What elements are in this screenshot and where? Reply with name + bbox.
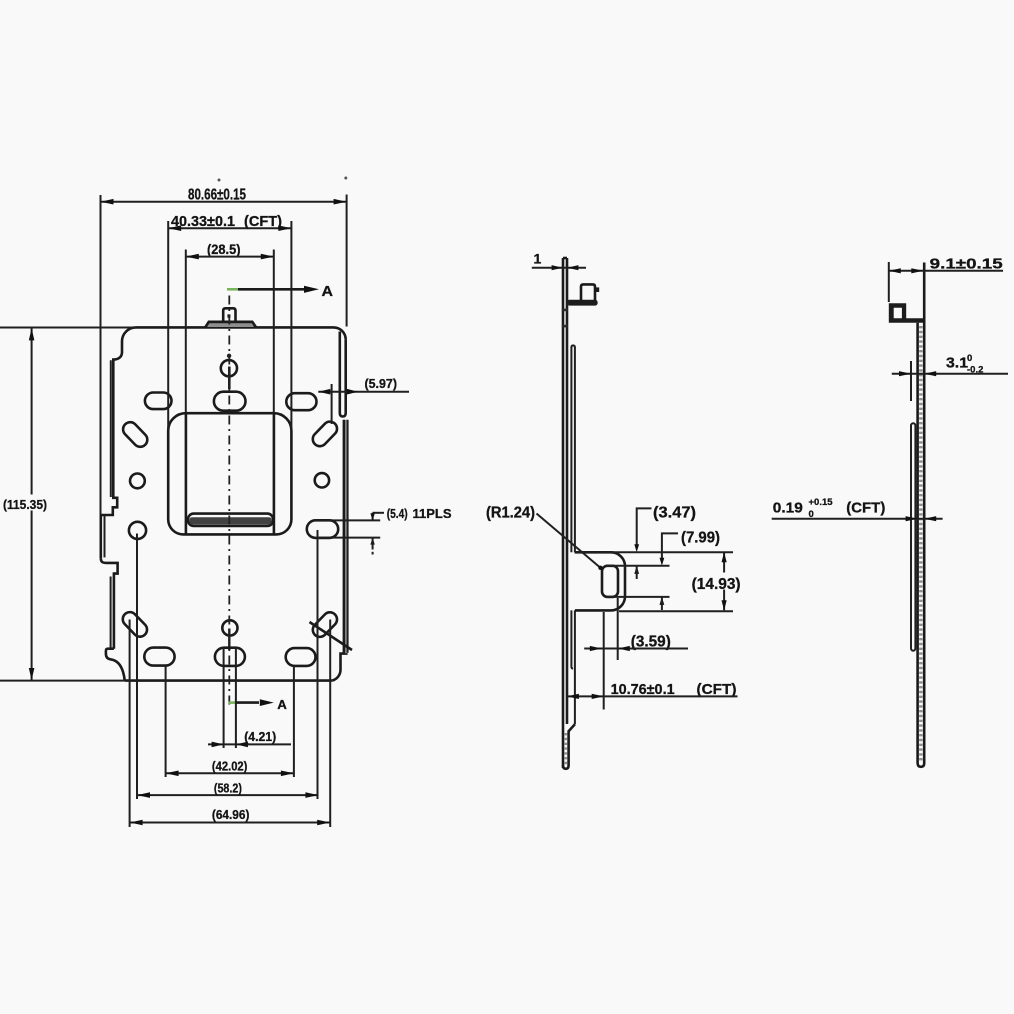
svg-text:0: 0: [967, 353, 972, 364]
middle view: main sheet profile lines: [562, 258, 565, 768]
front view: tab notch dot: [227, 314, 230, 317]
front view: small circle left: [130, 474, 145, 489]
front view: right edge gray double band: [344, 420, 347, 653]
front view: upper angled slot right: [310, 419, 340, 449]
svg-text:A: A: [322, 284, 334, 300]
front view: bottom-left corner: [106, 649, 125, 681]
svg-text:(CFT): (CFT): [846, 500, 885, 517]
front view: left side stepped contour upper: [101, 327, 136, 515]
middle view: small edge tick marks: [562, 309, 568, 312]
front view: right edge top with slit U: [344, 340, 347, 413]
front view: bottom row slot middle: [215, 648, 245, 666]
front view: bottom bar of window with dark fill: [188, 514, 273, 526]
front view: bottom row slot right: [286, 648, 316, 666]
front view: top-right corner arc: [334, 327, 346, 339]
front view: lower angled slot left: [120, 609, 150, 639]
svg-text:(42.02): (42.02): [212, 758, 248, 773]
mid extension lines for bump: [575, 551, 734, 553]
front view: upper angled slot left: [120, 419, 150, 449]
right view: hook finger (dark): [889, 303, 924, 323]
front view: middle slot right: [307, 520, 338, 538]
svg-text:(14.93): (14.93): [692, 576, 741, 593]
front view: lower angled slot right: [310, 609, 340, 639]
front view: left outer edge line (also 80.66 left extension): [100, 195, 102, 515]
front view: bottom edge: [125, 679, 333, 682]
front view: left side tab step: [101, 558, 118, 649]
dim (58.2): [136, 534, 138, 800]
svg-text:(58.2): (58.2): [214, 781, 242, 796]
front view: window inner channel lines: [185, 413, 188, 534]
svg-text:(4.21): (4.21): [244, 729, 276, 744]
middle view: top hook square tab: [581, 284, 595, 300]
mid dim (14.93): [723, 552, 725, 610]
svg-text:(28.5): (28.5): [207, 241, 241, 257]
svg-text:A: A: [277, 697, 287, 712]
right view: offset back layer: [911, 423, 915, 650]
svg-text:(5.4): (5.4): [387, 507, 408, 521]
svg-text:(64.96): (64.96): [212, 807, 250, 822]
front view: top row slot middle: [214, 392, 246, 411]
svg-text:(5.97): (5.97): [365, 376, 398, 391]
svg-text:11PLS: 11PLS: [413, 507, 452, 521]
middle view: clip bump outer profile: [575, 552, 625, 610]
front view: left side contour mid (double line): [100, 515, 103, 558]
front view: central embossed window (rounded rect): [168, 413, 291, 534]
right view: sheet edge (dotted band): [916, 323, 919, 763]
section arrow A bottom with green mark: [229, 701, 237, 704]
section arrow A top with green mark: [227, 288, 238, 291]
svg-text:1: 1: [534, 251, 542, 267]
front view: bottom small hole: [222, 620, 237, 635]
dim (115.35) left: [0, 327, 136, 329]
middle view: back-plate offset lines: [571, 345, 575, 347]
svg-text:(R1.24): (R1.24): [486, 505, 535, 522]
middle view: hook nub: [595, 287, 599, 292]
front view: diagonal slash through lower-right slot: [310, 622, 353, 650]
middle view: top hook arm (dark): [567, 300, 598, 306]
dim (42.02): [165, 666, 167, 777]
front view: top row slot left: [145, 393, 172, 410]
svg-text:(3.47): (3.47): [653, 505, 696, 522]
svg-text:3.1: 3.1: [946, 355, 968, 372]
middle view: bottom tongue with chamfer and gray dashes: [569, 724, 575, 765]
front view: small circle right: [315, 473, 329, 487]
front view: vertical centerline dash-dot: [228, 296, 230, 706]
svg-text:+0.15: +0.15: [809, 497, 834, 508]
dim (64.96): [129, 620, 131, 828]
front view: top tab: [223, 308, 235, 321]
svg-text:(115.35): (115.35): [3, 497, 47, 512]
front view: bottom row slot left: [144, 648, 174, 666]
front view: bottom-right corner + right step: [332, 654, 347, 681]
front view: top small hole: [221, 360, 237, 376]
front view: top plateau (weld bead) with gray fill: [208, 322, 254, 327]
front view: middle circle left: [129, 522, 146, 539]
middle view: clip bump inner U: [602, 566, 618, 597]
dim (4.21): [223, 648, 225, 748]
svg-text:(7.99): (7.99): [681, 530, 720, 547]
front view: mounting-plate outline top edge: [136, 326, 334, 329]
svg-text:0.19: 0.19: [773, 500, 803, 517]
front view: top row slot right: [286, 393, 316, 410]
